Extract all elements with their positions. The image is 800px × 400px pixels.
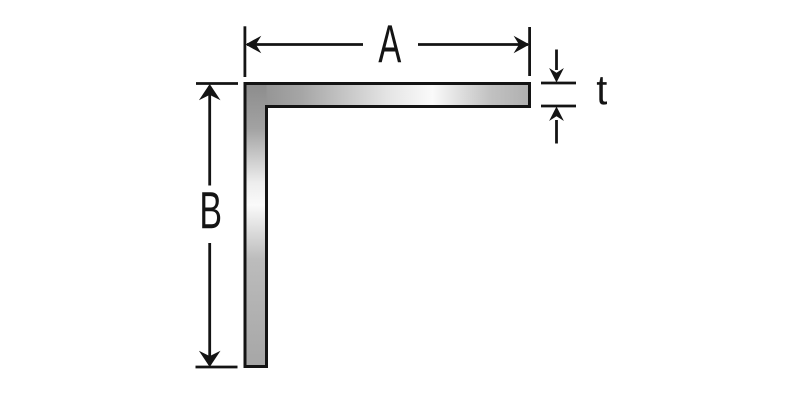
dimension line B upper segment — [208, 86, 211, 186]
extension tick bottom of dimension B — [196, 366, 238, 369]
arrowhead t lower (pointing up) — [549, 107, 564, 122]
arrowhead A left — [245, 36, 261, 54]
arrowhead B bottom — [199, 351, 221, 367]
dimension t lower arrow line — [555, 120, 558, 144]
extension tick top of dimension t — [541, 82, 576, 85]
dimension line A right segment — [418, 43, 528, 46]
dimension line B lower segment — [208, 243, 211, 365]
angle profile outline — [245, 84, 530, 367]
angle vertical leg fill — [245, 84, 267, 367]
angle horizontal leg fill — [245, 84, 530, 107]
arrowhead A right — [514, 36, 530, 54]
label B — [202, 192, 220, 228]
arrowhead t upper (pointing down) — [549, 68, 564, 83]
arrowhead B top — [199, 84, 221, 100]
extension line left of dimension A — [243, 26, 246, 77]
extension tick bottom of dimension t — [541, 105, 576, 108]
extension line right of dimension A — [528, 27, 531, 76]
dimension t upper arrow line — [555, 50, 558, 71]
dimension line A left segment — [247, 43, 363, 46]
extension tick top of dimension B — [196, 82, 238, 85]
label t — [597, 77, 607, 104]
label A — [378, 25, 401, 62]
